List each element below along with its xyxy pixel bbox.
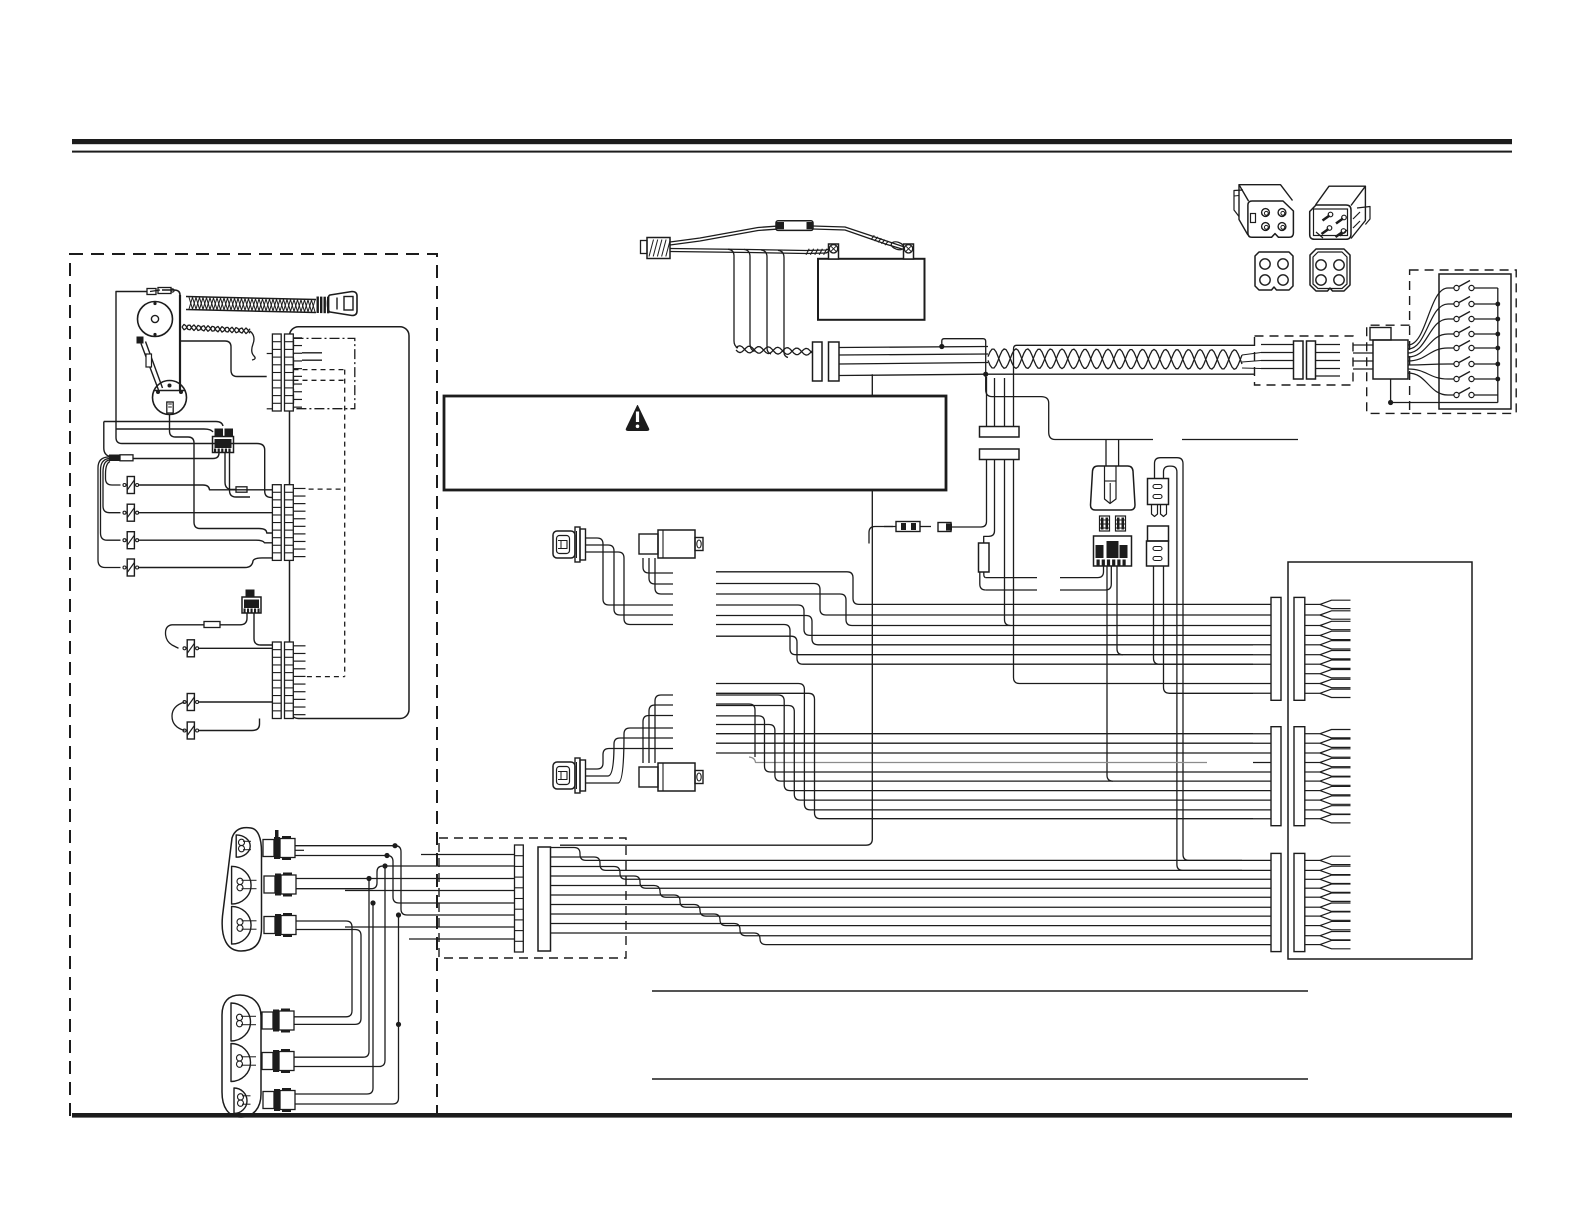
engine connector halves CN1 — [813, 342, 823, 381]
P2 lead to terminal T3 — [220, 613, 247, 625]
console connector group G1 — [1271, 597, 1281, 700]
fuse F6 — [187, 694, 194, 711]
P3 harness upper pair to fuse link — [670, 226, 776, 242]
battery sense drop to lamp feed bars — [986, 374, 1153, 439]
ring terminal T1 — [109, 455, 120, 462]
fuse FL2 lead to bus row 664 — [1154, 566, 1254, 664]
wire magneto to strip A — [180, 341, 267, 377]
H2 lamp low — [234, 1088, 247, 1114]
main harness braid — [1017, 344, 1255, 346]
CN6 entry stubs — [1261, 344, 1294, 346]
negative post screw — [829, 245, 837, 253]
fuse F5 — [187, 640, 194, 657]
feeder wires down to H2 — [294, 879, 369, 1058]
CN4 lead to resistor upper — [1060, 566, 1104, 578]
CN6 bars — [1294, 341, 1304, 379]
fuse F1 — [127, 477, 134, 494]
resistor block RW1 — [979, 543, 990, 572]
CN4 lead to resistor lower — [1060, 566, 1111, 590]
bus group1 wires — [716, 572, 1253, 605]
deck connector dashed box — [439, 838, 626, 958]
twisted pair lead from magneto — [182, 325, 250, 333]
spark plug braided lead — [186, 297, 316, 300]
bus group2 stepped wires — [716, 704, 755, 757]
lamp feed connector bars CN2 — [980, 427, 1020, 438]
accessory plug P1 (black) — [215, 429, 224, 437]
H2 lamp top — [231, 1003, 251, 1041]
positive cable lug — [890, 240, 905, 251]
P1 lead to blade terminal — [225, 453, 236, 490]
spark plug boot connector — [328, 292, 358, 316]
braid tail converge — [1242, 353, 1261, 356]
H1 connector pair CL3 — [264, 917, 275, 934]
tail pigtail connector C2 — [639, 767, 658, 787]
H2 lamp mid — [231, 1044, 251, 1082]
fuse F7 wire — [199, 719, 260, 731]
stator plug P3 — [641, 241, 648, 254]
twisted section to engine connector — [736, 346, 812, 354]
top thin rule — [72, 151, 1512, 153]
C1 drop wires — [643, 558, 673, 573]
magneto kill terminal — [147, 289, 156, 295]
tail housing H2 — [222, 995, 261, 1117]
H2 connector pair CL6 — [263, 1092, 274, 1109]
CN2 drop to bus row 625 — [1005, 460, 1011, 626]
H2 connector pair CL5 — [262, 1053, 273, 1070]
magneto flywheel M1 — [138, 302, 173, 337]
panel feed line segment — [1182, 439, 1298, 441]
inline fuse link — [776, 221, 813, 231]
option dashed branch to strip C — [307, 676, 345, 678]
harness connector dashed box CN6 — [1255, 336, 1354, 385]
CN4 drop to bus row 781 — [1107, 566, 1113, 781]
condenser under cap — [167, 402, 173, 413]
mini fuse FL1 — [1148, 479, 1169, 505]
switch panel dashed boundary outer — [1410, 270, 1517, 413]
console box outline — [1288, 562, 1472, 959]
fuse F5 wire to strip C — [199, 647, 273, 649]
option dash-dot box on strip A — [294, 338, 355, 408]
deck harness input wires — [421, 854, 515, 856]
CN2 drop to bus row 683 — [1014, 460, 1254, 684]
CN3 top leads — [1105, 440, 1107, 466]
charge wire riser x872 — [560, 374, 872, 845]
fuse FL2 lead to bus row 693 — [1164, 566, 1254, 693]
spark lead ferrule — [317, 297, 319, 314]
blade terminal T3 — [204, 622, 220, 628]
engine-harness dashed boundary box — [70, 254, 437, 1116]
charge tap junction — [939, 344, 944, 349]
ignition module plug CN4 (dark) — [1094, 536, 1132, 566]
deck connector output bar — [538, 847, 551, 951]
connector face J4 — [1310, 249, 1350, 291]
fuse F4 wire to strip B — [139, 558, 273, 568]
fuse F7 — [187, 722, 194, 739]
H1 lamp low — [232, 906, 251, 944]
H1 connector pair CL2 — [264, 876, 275, 893]
option dashed riser — [344, 370, 346, 677]
fuse F2 wire to strip B — [139, 512, 273, 514]
S1 drop wires — [586, 538, 674, 605]
switch rows — [1408, 288, 1454, 345]
magneto-to-distributor leads — [137, 337, 144, 344]
fuse F6 wire to strip C — [199, 701, 273, 703]
warning triangle symbol — [626, 406, 649, 431]
harness drop wires from stator leads — [728, 249, 738, 348]
terminal fan-out rails to fuses — [98, 457, 121, 568]
switch panel dashed boundary lower — [1367, 325, 1410, 413]
deck box output staircase — [551, 848, 1243, 861]
H1 connector pair CL1 — [263, 840, 274, 857]
CN5 lead from CN2 — [952, 460, 987, 528]
battery negative post — [829, 244, 839, 259]
deck connector segmented bar — [515, 845, 524, 952]
distributor output wire to strip B — [170, 415, 273, 534]
bulkhead strip pair B — [272, 485, 281, 561]
CN1 output wires — [839, 347, 988, 348]
console connector group G3 — [1271, 853, 1281, 951]
option dashed stub lines — [294, 369, 345, 371]
H1 wires — [295, 846, 515, 915]
junction dots — [392, 843, 397, 848]
headlamp pigtail connector C1 — [639, 534, 658, 554]
twisted pair tail — [250, 331, 255, 360]
magneto mount bracket — [179, 295, 181, 391]
wire magneto kill to left rail — [116, 292, 272, 498]
headlamp housing H1 — [222, 828, 261, 951]
fuse F4 — [127, 559, 134, 576]
distributor D1 — [153, 381, 187, 415]
CN3 pin stacks — [1100, 516, 1110, 531]
CN4 drop to bus row 654 — [1117, 566, 1123, 655]
switch panel plug leads — [1353, 344, 1373, 346]
jumper between F6 F7 — [172, 702, 185, 731]
engine connector block outline — [290, 327, 410, 719]
headlamp bulb socket S1 — [553, 531, 575, 558]
P2 lead to strip C — [254, 613, 272, 645]
strip A pin stubs — [293, 337, 302, 339]
P1 stub lead — [230, 453, 251, 498]
P1 lead to ring terminal — [133, 453, 219, 459]
CN5 left stub — [869, 527, 896, 544]
fuse FL1 loop wires down right side — [1155, 458, 1243, 861]
H1 lamp mid — [232, 866, 251, 904]
H2 connector pair CL4 — [262, 1012, 273, 1029]
deck harness rule 1 — [652, 990, 1308, 992]
bottom thick rule — [72, 1113, 1512, 1118]
resistor top lead from CN2 — [984, 460, 995, 544]
fuse link lead to battery positive — [813, 226, 903, 247]
warning note box — [444, 396, 946, 490]
rail to accessory connector — [116, 429, 213, 432]
S2 riser wires — [586, 749, 674, 770]
inline connector pair CN5 — [896, 522, 920, 532]
switch return wire — [1391, 402, 1498, 404]
bulkhead strip pair A — [272, 334, 281, 411]
fuse F2 — [127, 504, 134, 521]
fuse F3 — [127, 532, 134, 549]
lighting plug P2 (black) — [246, 590, 255, 598]
mini fuse FL2 — [1148, 526, 1169, 541]
connector block iso socket J2 — [1310, 205, 1351, 239]
battery positive post — [904, 244, 914, 259]
strip C pin stubs — [293, 645, 305, 647]
switch common bus — [1497, 288, 1499, 403]
bulkhead strip pair C — [272, 642, 281, 719]
fuse F1 wire to strip B — [139, 485, 273, 490]
deck harness rule 2 — [652, 1078, 1308, 1080]
option dashed branch to strip B — [309, 488, 345, 490]
bus group2 wires — [716, 733, 1253, 735]
blade terminal T2 — [236, 487, 247, 492]
CN6 exit stubs — [1316, 344, 1341, 346]
switch panel plug CN7 — [1373, 340, 1408, 379]
CN2 entry drops — [986, 377, 988, 427]
battery B1 — [818, 259, 925, 320]
tail lamp bulb socket S2 — [553, 762, 575, 789]
C2 riser wires — [643, 716, 673, 764]
switch panel box — [1439, 274, 1511, 409]
H1 lamp small — [236, 835, 250, 857]
P3 lower lead to battery negative — [670, 249, 830, 251]
connector block iso plug J1 — [1248, 201, 1294, 237]
ignition module connector trapezoid CN3 — [1091, 466, 1136, 510]
positive post screw — [904, 245, 912, 253]
strip B pin stubs — [293, 487, 305, 489]
fuse F3 wire to strip B — [139, 540, 273, 543]
top thick rule — [72, 139, 1512, 144]
console connector group G2 — [1271, 727, 1281, 826]
connector face J3 — [1255, 252, 1293, 290]
